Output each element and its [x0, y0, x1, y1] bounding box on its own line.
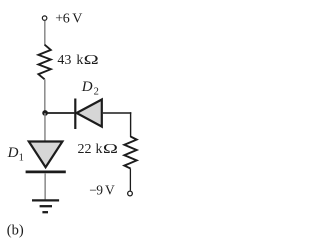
svg-text:Ω: Ω	[103, 140, 118, 156]
svg-text:43: 43	[57, 53, 71, 68]
resistor R2	[124, 137, 136, 169]
wire D1 to ground	[44, 173, 46, 199]
svg-text:2: 2	[94, 86, 99, 97]
terminal +6 V	[42, 16, 47, 21]
resistor R1	[38, 45, 50, 80]
ground	[32, 200, 59, 212]
wire corner down to R2	[130, 112, 132, 137]
svg-text:−9 V: −9 V	[89, 182, 115, 197]
svg-text:D: D	[81, 79, 93, 95]
terminal −9 V	[128, 191, 133, 196]
wire node to D1	[44, 113, 46, 141]
svg-text:1: 1	[19, 153, 24, 164]
diode D1	[26, 142, 66, 172]
wire node to D2	[45, 112, 74, 114]
svg-text:k: k	[76, 53, 83, 68]
wire D2 to corner	[103, 112, 131, 114]
wire R1 to node	[44, 79, 46, 113]
node A junction	[42, 110, 48, 116]
diode D2	[75, 99, 102, 130]
svg-text:(b): (b)	[7, 222, 24, 238]
svg-text:D: D	[7, 145, 19, 161]
svg-text:k: k	[96, 142, 103, 157]
svg-text:Ω: Ω	[84, 51, 99, 67]
svg-text:+6 V: +6 V	[55, 12, 82, 27]
wire top terminal to R1	[44, 21, 46, 45]
svg-text:22: 22	[78, 142, 92, 157]
wire R2 to bottom terminal	[129, 169, 131, 191]
